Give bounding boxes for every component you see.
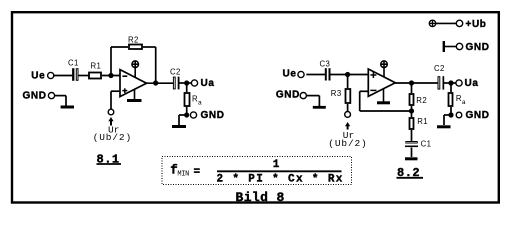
svg-text:GND: GND (276, 89, 300, 100)
svg-text:R1: R1 (417, 117, 428, 126)
svg-text:GND: GND (466, 110, 490, 121)
svg-text:GND: GND (23, 90, 47, 101)
svg-text:C3: C3 (320, 59, 331, 68)
svg-text:C1: C1 (68, 58, 79, 67)
svg-text:Ue: Ue (283, 68, 297, 79)
svg-text:C2: C2 (170, 67, 181, 76)
svg-text:(Ub/2): (Ub/2) (93, 132, 132, 143)
svg-text:1: 1 (273, 159, 280, 171)
svg-text:=: = (194, 167, 201, 179)
svg-text:Ua: Ua (465, 78, 479, 89)
svg-text:R1: R1 (91, 61, 102, 70)
svg-text:C1: C1 (421, 140, 432, 149)
svg-text:R2: R2 (416, 96, 427, 105)
svg-text:C2: C2 (434, 64, 445, 73)
svg-text:R3: R3 (331, 89, 342, 98)
svg-text:a: a (198, 99, 202, 106)
svg-text:Ue: Ue (31, 70, 45, 81)
svg-text:(Ub/2): (Ub/2) (328, 138, 367, 149)
svg-text:GND: GND (466, 42, 490, 53)
svg-text:MIN: MIN (177, 171, 189, 179)
svg-text:R2: R2 (128, 35, 139, 44)
svg-text:+Ub: +Ub (466, 19, 487, 30)
svg-text:GND: GND (201, 110, 225, 121)
svg-text:a: a (462, 99, 466, 106)
svg-text:Bild 8: Bild 8 (236, 190, 285, 205)
svg-text:2 * PI * Cx * Rx: 2 * PI * Cx * Rx (217, 174, 344, 186)
svg-text:Ua: Ua (201, 78, 215, 89)
